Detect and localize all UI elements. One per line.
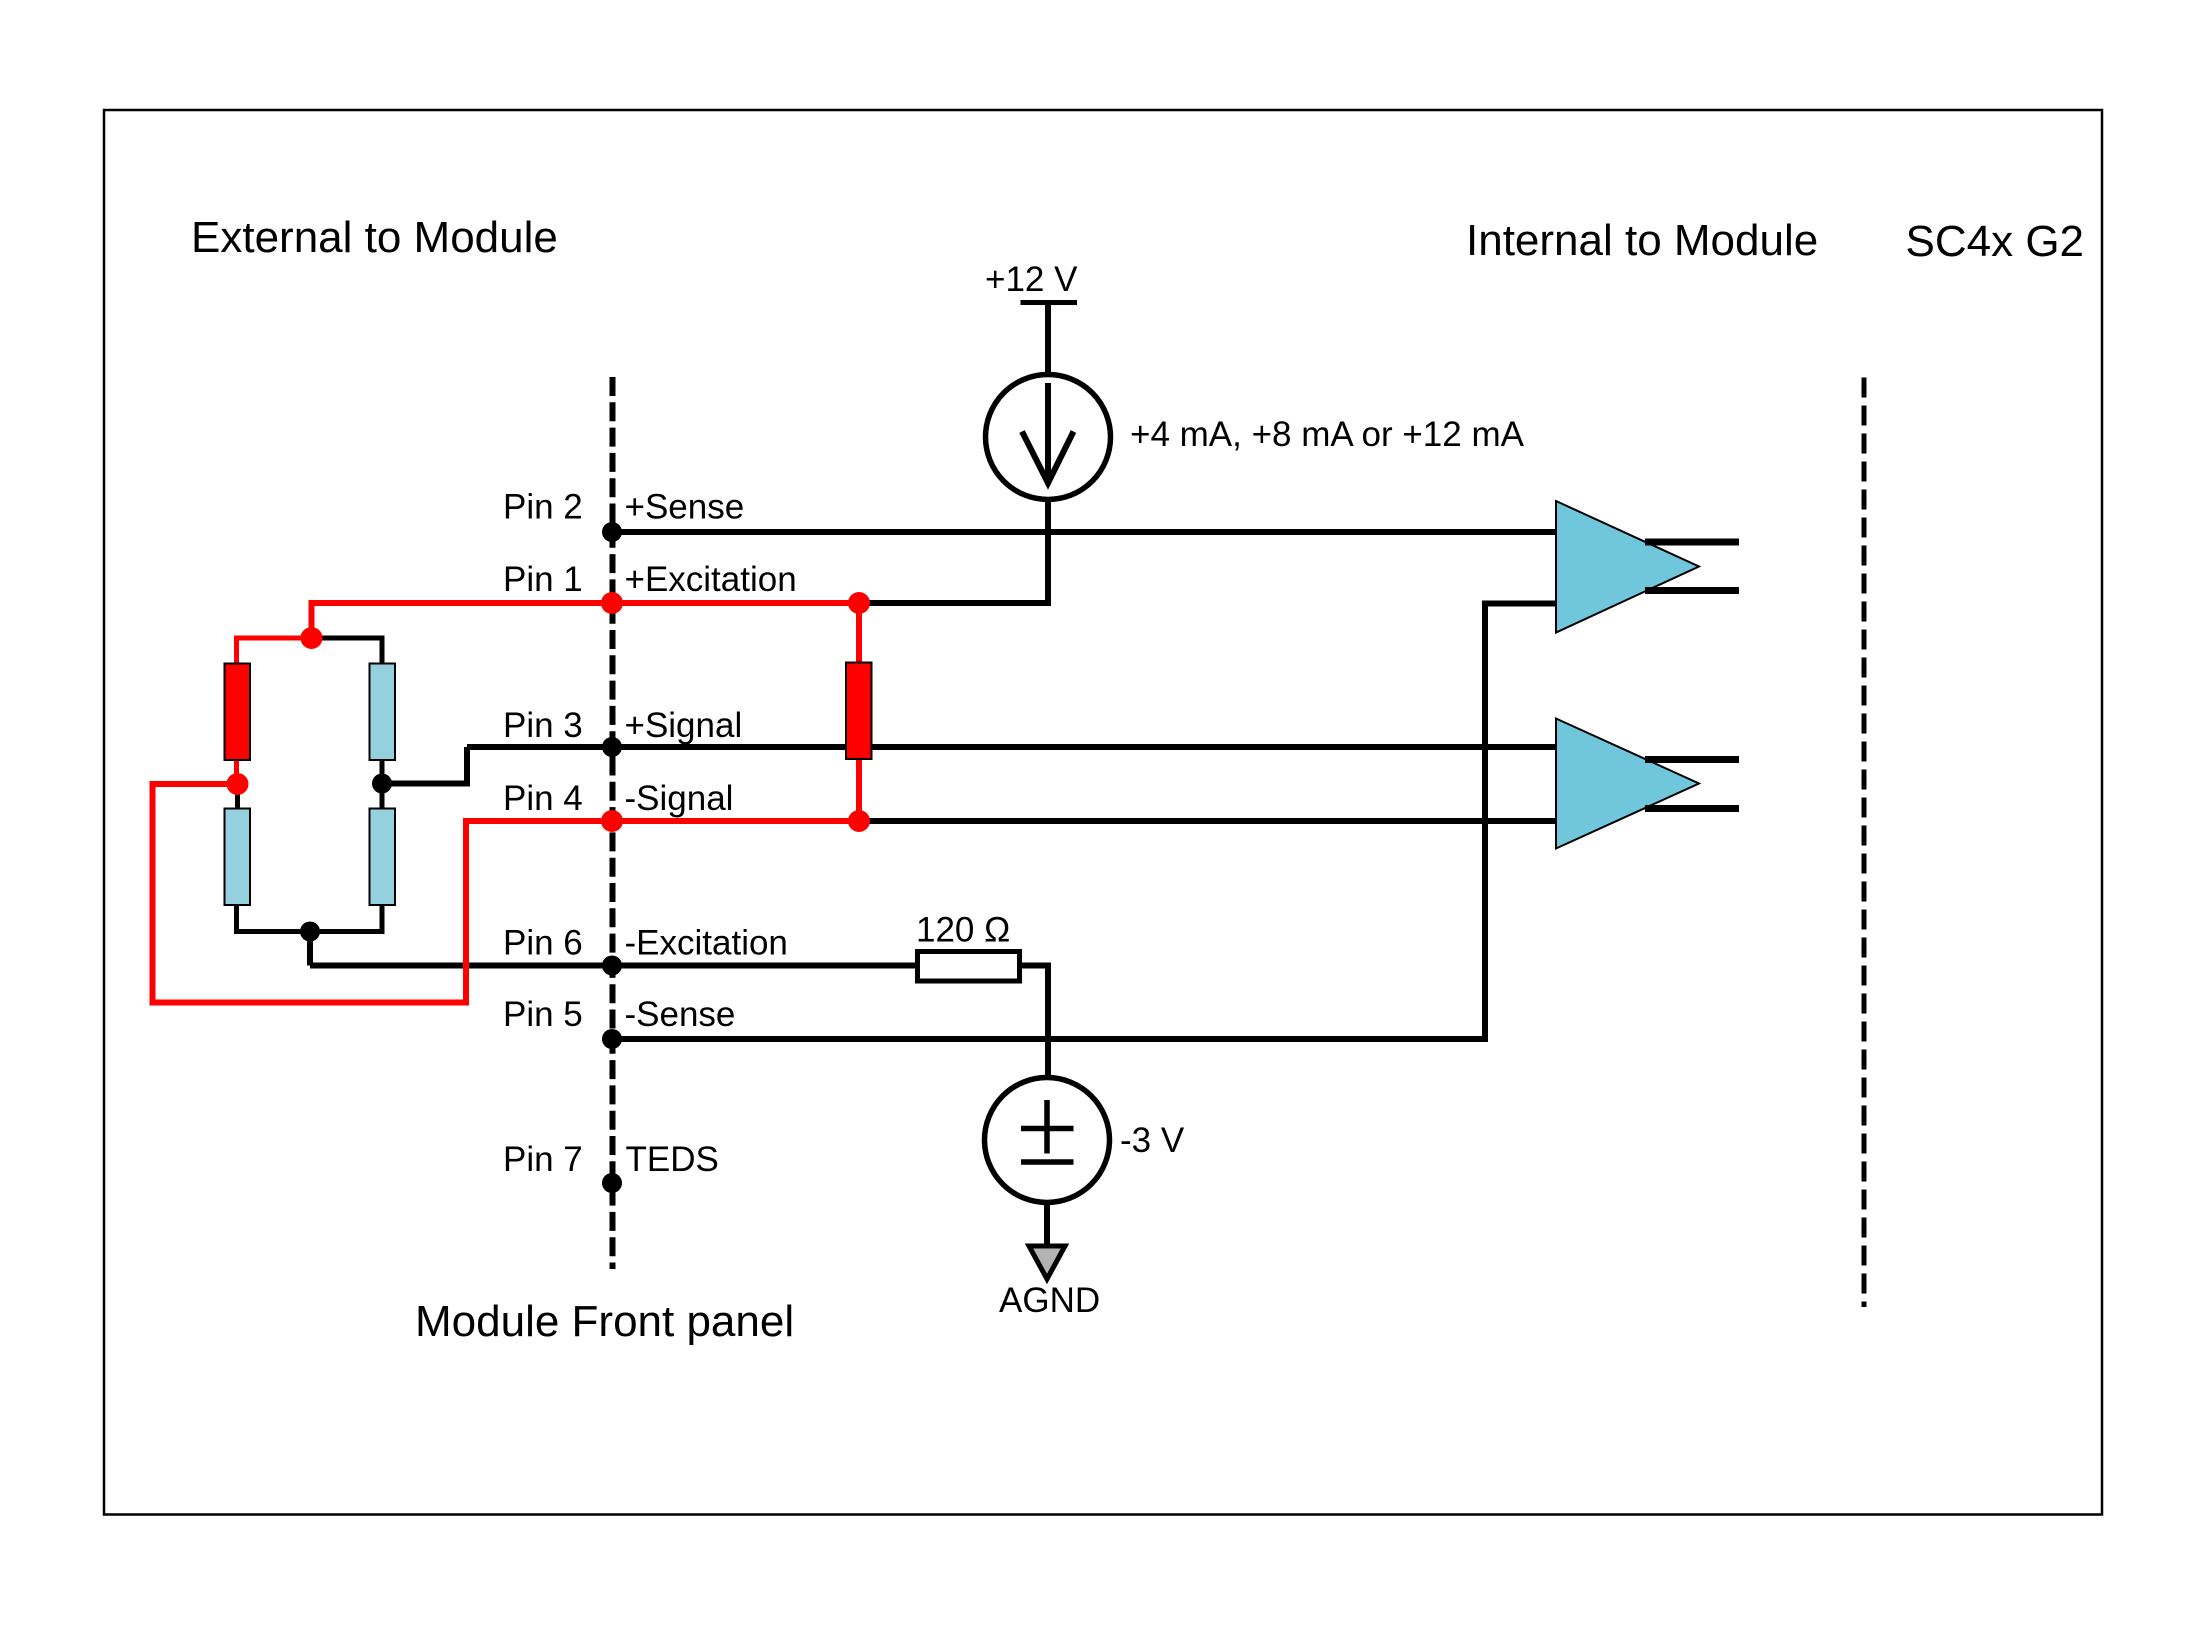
node bridge bottom — [300, 922, 320, 942]
svg-text:+Excitation: +Excitation — [625, 560, 797, 599]
svg-text:+Signal: +Signal — [625, 706, 743, 745]
border frame — [104, 110, 2102, 1515]
node Pin 3 junction — [602, 737, 622, 757]
svg-text:External to Module: External to Module — [191, 213, 558, 262]
wire bridge right mid black — [380, 759, 385, 810]
resistor bridge R1 red top-left — [225, 664, 251, 761]
wire -Signal red loop from bridge — [153, 784, 860, 1003]
resistor 120 ohm — [918, 952, 1020, 982]
wire red series resistor bottom to -Signal junction — [856, 757, 862, 821]
wire +12V to current source — [1045, 303, 1051, 379]
node Pin 7 junction — [602, 1173, 622, 1193]
svg-text:Module Front panel: Module Front panel — [415, 1297, 794, 1346]
wire bridge left mid red — [234, 759, 239, 784]
svg-text:+4 mA, +8 mA or +12 mA: +4 mA, +8 mA or +12 mA — [1130, 415, 1525, 454]
svg-text:TEDS: TEDS — [626, 1140, 719, 1179]
svg-text:+Sense: +Sense — [625, 488, 745, 527]
voltage source -3V — [985, 1078, 1110, 1203]
power rail +12 V — [985, 260, 1078, 303]
node series resistor top — [848, 592, 870, 614]
svg-text:-Excitation: -Excitation — [625, 924, 788, 963]
wire bridge top right black — [312, 638, 383, 665]
wire +Excitation black segment — [859, 600, 1048, 606]
current source I1 — [986, 375, 1111, 500]
svg-text:Internal to Module: Internal to Module — [1466, 216, 1818, 265]
internal module dashed boundary — [1862, 378, 1867, 1308]
svg-text:Pin 7: Pin 7 — [503, 1140, 583, 1179]
svg-text:Pin 5: Pin 5 — [503, 995, 583, 1034]
svg-text:-Sense: -Sense — [625, 995, 736, 1034]
node Pin 6 junction — [602, 956, 622, 976]
wire -Signal black segment to amplifier — [859, 818, 1556, 824]
wire current source to +Excitation node — [1045, 498, 1051, 606]
svg-text:Pin 4: Pin 4 — [503, 779, 583, 818]
op-amp A2 output stubs — [1645, 756, 1739, 763]
wire -Excitation Pin6 line — [310, 963, 918, 969]
node Pin 5 junction — [602, 1029, 622, 1049]
svg-text:Pin 3: Pin 3 — [503, 706, 583, 745]
node Pin 1 junction — [601, 592, 623, 614]
module front panel dashed boundary — [610, 377, 616, 1269]
op-amp A2 — [1556, 719, 1699, 849]
node Pin 2 junction — [602, 522, 622, 542]
svg-text:Pin 1: Pin 1 — [503, 560, 583, 599]
wire bridge bottom to -Excitation — [307, 932, 313, 966]
svg-text:+12 V: +12 V — [985, 260, 1078, 299]
svg-text:-Signal: -Signal — [625, 779, 734, 818]
node bridge right mid — [372, 774, 392, 794]
node Pin 4 junction — [601, 810, 623, 832]
wire +Sense Pin2 to amplifier — [612, 529, 1556, 535]
svg-text:Pin 2: Pin 2 — [503, 488, 583, 527]
wire red riser to bridge top — [309, 600, 315, 638]
svg-text:120 Ω: 120 Ω — [916, 911, 1010, 950]
resistor bridge R3 bottom-left — [225, 809, 251, 906]
wire -Sense Pin5 to amplifier — [612, 604, 1556, 1040]
node series resistor bottom — [848, 810, 870, 832]
wire bridge right mid to +Signal — [382, 747, 467, 784]
node bridge left mid — [227, 773, 249, 795]
wire bridge bottom left — [237, 904, 311, 932]
ground AGND arrow — [1029, 1246, 1065, 1279]
svg-text:Pin 6: Pin 6 — [503, 924, 583, 963]
svg-text:-3 V: -3 V — [1120, 1121, 1185, 1160]
wire bridge bottom right — [310, 904, 382, 932]
svg-text:SC4x G2: SC4x G2 — [1906, 217, 2085, 266]
resistor bridge R4 bottom-right — [370, 809, 396, 906]
op-amp A1 output stubs — [1645, 539, 1739, 546]
wire +Signal Pin3 to amplifier — [467, 744, 1556, 750]
wire +Excitation red segment — [312, 600, 859, 606]
node bridge top — [301, 627, 323, 649]
wire red riser junction to series resistor top — [856, 603, 862, 665]
wire bridge top left red — [237, 638, 312, 665]
resistor bridge R2 top-right — [370, 664, 396, 761]
svg-text:AGND: AGND — [999, 1281, 1100, 1320]
wire 120 ohm to corner — [1020, 966, 1049, 1079]
wire -3V to AGND — [1044, 1203, 1050, 1250]
wire bridge left mid black — [235, 784, 240, 810]
resistor red series completion — [846, 663, 872, 760]
op-amp A1 — [1556, 501, 1699, 633]
